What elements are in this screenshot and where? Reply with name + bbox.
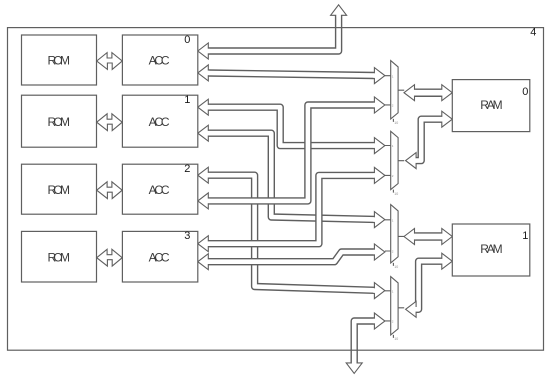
svg-text:ROM: ROM xyxy=(47,54,69,68)
svg-text:RAM: RAM xyxy=(480,242,502,256)
bus ROM2-ACC2 (bidirectional link) xyxy=(97,182,123,199)
svg-text:10: 10 xyxy=(394,192,398,196)
wire bus ACC1-M3 input a xyxy=(198,125,385,227)
svg-text:1: 1 xyxy=(184,94,190,106)
wire bus M3-RAM1 (bidirectional) xyxy=(404,229,452,245)
block ROM0 xyxy=(22,35,97,85)
mux M3 xyxy=(385,205,404,270)
mux M4 xyxy=(385,277,404,342)
svg-text:1: 1 xyxy=(522,230,528,242)
block RAM1 xyxy=(452,224,530,276)
bus ROM3-ACC3 (bidirectional link) xyxy=(97,249,123,266)
wire bus TOP-ACC0 (external top port to ACC0) xyxy=(198,5,347,59)
mux M2 xyxy=(385,131,404,196)
svg-text:10: 10 xyxy=(394,121,398,125)
label 4 (chip index) xyxy=(530,26,536,38)
svg-text:RAM: RAM xyxy=(480,98,502,112)
block RAM0 xyxy=(452,80,530,132)
block ROM1 xyxy=(22,95,97,147)
svg-text:ACC: ACC xyxy=(149,115,170,129)
svg-text:3: 3 xyxy=(184,230,190,242)
bus ROM1-ACC1 (bidirectional link) xyxy=(97,114,123,131)
block ROM2 xyxy=(22,164,97,214)
svg-text:ROM: ROM xyxy=(47,183,69,197)
mux M1 xyxy=(385,61,404,126)
svg-text:2: 2 xyxy=(184,163,190,175)
block ACC3 xyxy=(122,230,197,282)
wire bus ACC3-M3 input b xyxy=(198,244,385,270)
svg-text:ACC: ACC xyxy=(149,183,170,197)
svg-text:4: 4 xyxy=(530,26,536,38)
block ACC1 xyxy=(122,94,197,147)
wire bus ACC2-M1 input b xyxy=(198,97,385,209)
bus ROM0-ACC0 (bidirectional link) xyxy=(97,53,123,70)
block ROM3 xyxy=(22,231,97,282)
svg-text:ACC: ACC xyxy=(149,54,170,68)
svg-text:ROM: ROM xyxy=(47,115,69,129)
block ACC2 xyxy=(122,163,197,214)
svg-text:0: 0 xyxy=(522,86,528,98)
wire bus M2-RAM0 (bidirectional) xyxy=(406,111,453,168)
svg-text:ROM: ROM xyxy=(47,250,69,264)
wire bus ACC2-M4 input a xyxy=(198,167,385,298)
wire bus M4-RAM1 (bidirectional) xyxy=(406,253,453,317)
svg-text:0: 0 xyxy=(184,34,190,46)
wire bus M4 input b-BOTTOM (external bottom port) xyxy=(346,313,385,373)
wire bus ACC0-M1 input a xyxy=(198,65,385,84)
svg-text:10: 10 xyxy=(394,337,398,341)
block ACC0 xyxy=(122,34,197,85)
svg-text:10: 10 xyxy=(394,265,398,269)
wire bus ACC1-M2 input a xyxy=(198,99,385,153)
svg-text:ACC: ACC xyxy=(149,250,170,264)
wire bus M1-RAM0 (bidirectional) xyxy=(404,85,452,101)
wire bus ACC3-M2 input b xyxy=(198,167,385,251)
